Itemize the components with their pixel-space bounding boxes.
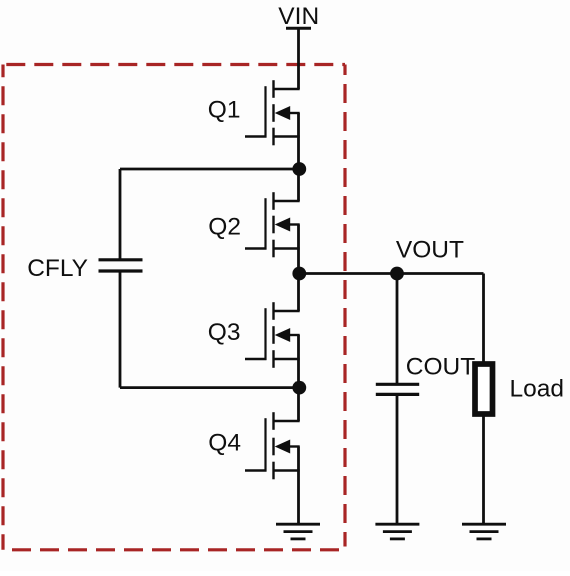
svg-text:VIN: VIN bbox=[278, 3, 319, 30]
wire node A to CFLY top bbox=[120, 168, 299, 171]
wire Q4 source to ground bbox=[297, 471, 300, 525]
wire Q3 source to Q4 drain bbox=[297, 359, 300, 421]
transistor Q1 bbox=[245, 80, 300, 145]
transistor Q2 bbox=[245, 192, 300, 257]
svg-text:Q1: Q1 bbox=[208, 96, 241, 123]
wire CFLY bottom plate lead bbox=[119, 271, 122, 388]
transistor Q3 bbox=[245, 302, 300, 368]
wire Load bottom to ground bbox=[482, 414, 485, 524]
svg-text:COUT: COUT bbox=[406, 353, 475, 380]
svg-text:Load: Load bbox=[510, 376, 565, 403]
wire Q1 source to Q2 drain bbox=[297, 137, 300, 202]
ground COUT bbox=[375, 524, 419, 539]
svg-text:Q3: Q3 bbox=[208, 319, 241, 346]
capacitor CFLY bbox=[99, 260, 143, 271]
VIN terminal bar bbox=[286, 27, 311, 30]
wire Q2 source to Q3 drain bbox=[297, 249, 300, 312]
wire VOUT rail bbox=[299, 272, 484, 275]
svg-text:Q4: Q4 bbox=[208, 430, 241, 457]
node B junction Q3-Q4 (CFLY-) bbox=[292, 381, 306, 395]
ground Load bbox=[462, 524, 506, 539]
wire VIN to Q1 drain bbox=[297, 28, 300, 89]
red dashed boundary box (CFLY converter block) bbox=[3, 65, 345, 550]
transistor Q4 bbox=[245, 412, 300, 479]
wire node B to CFLY bottom bbox=[120, 386, 299, 389]
ground main chain bbox=[276, 524, 320, 539]
node VOUT junction to COUT bbox=[390, 267, 404, 281]
wire VOUT node to COUT top plate bbox=[396, 274, 399, 385]
capacitor COUT bbox=[376, 384, 419, 394]
svg-text:CFLY: CFLY bbox=[27, 255, 88, 282]
resistor Load bbox=[475, 364, 493, 414]
svg-text:VOUT: VOUT bbox=[396, 236, 464, 263]
node VOUT junction on switch chain bbox=[292, 267, 306, 281]
node A junction Q1-Q2 (CFLY+) bbox=[292, 162, 306, 176]
wire VOUT rail to Load top bbox=[482, 274, 485, 363]
wire COUT bottom plate to ground bbox=[396, 394, 399, 524]
wire CFLY top plate lead bbox=[119, 169, 122, 260]
svg-text:Q2: Q2 bbox=[208, 213, 241, 240]
